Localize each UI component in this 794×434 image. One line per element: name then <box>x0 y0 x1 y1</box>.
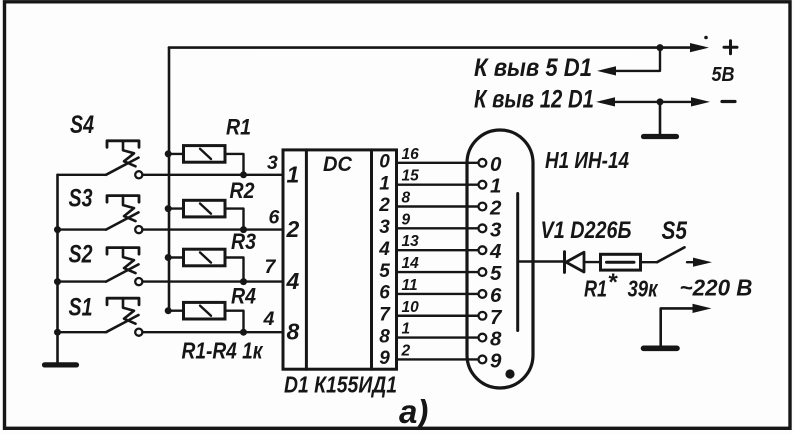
svg-text:1: 1 <box>379 173 390 194</box>
svg-text:8: 8 <box>379 326 390 347</box>
wire decoder output 2 to tube cathode <box>397 205 479 207</box>
diode V1 D226B <box>563 252 566 273</box>
node cathode 8 <box>479 334 487 342</box>
node cathode 6 <box>479 290 487 298</box>
svg-text:4: 4 <box>378 239 390 260</box>
svg-text:2: 2 <box>286 216 300 242</box>
svg-text:39к: 39к <box>628 276 659 302</box>
svg-text:4: 4 <box>489 240 502 263</box>
svg-text:DC: DC <box>323 153 353 176</box>
svg-text:6: 6 <box>379 283 390 304</box>
svg-text:13: 13 <box>402 233 420 250</box>
node cathode 2 <box>479 203 487 211</box>
node junction resistor to input wire <box>240 171 247 178</box>
wire decoder output 9 to tube cathode <box>397 358 479 360</box>
wire R1* to switch S5 <box>641 261 658 263</box>
node arrow to plus supply <box>690 43 709 52</box>
node cathode 0 <box>479 159 487 167</box>
svg-text:8: 8 <box>402 190 411 207</box>
node junction resistor top on +5V bus <box>165 205 172 212</box>
ground (left bottom) <box>45 362 77 367</box>
svg-text:1: 1 <box>287 161 300 187</box>
node cathode 4 <box>479 246 487 254</box>
svg-text:5: 5 <box>490 262 502 285</box>
wire +5V vertical bus <box>168 48 171 312</box>
wire decoder output 3 to tube cathode <box>397 227 479 229</box>
node cathode 3 <box>479 224 487 232</box>
node junction on plus rail <box>657 44 664 51</box>
node junction resistor top on +5V bus <box>165 254 172 261</box>
svg-text:2: 2 <box>378 195 390 216</box>
wire S3 contact to decoder input <box>143 228 284 230</box>
tube H1 IN-14 envelope <box>467 130 533 388</box>
resistor R3 <box>169 256 184 258</box>
svg-text:3: 3 <box>490 218 502 241</box>
svg-text:9: 9 <box>490 349 502 372</box>
wire decoder output 4 to tube cathode <box>397 249 479 251</box>
ground (mains return) <box>644 345 678 351</box>
switch S4 <box>58 174 107 176</box>
svg-text:*: * <box>608 269 619 296</box>
node junction on minus rail <box>657 98 664 105</box>
svg-text:1: 1 <box>490 175 501 198</box>
svg-text:9: 9 <box>402 211 411 228</box>
resistor R1* 39k <box>601 254 641 270</box>
wire decoder output 7 to tube cathode <box>397 315 479 317</box>
svg-text:1: 1 <box>402 321 411 338</box>
svg-text:Н1 ИН-14: Н1 ИН-14 <box>545 147 629 173</box>
wire mains line with arrow <box>687 261 702 263</box>
svg-text:3: 3 <box>379 217 390 238</box>
ground (minus rail chassis) <box>659 102 662 135</box>
svg-text:а): а) <box>399 393 428 430</box>
svg-text:4: 4 <box>286 268 300 294</box>
wire S1 contact to decoder input <box>143 331 284 333</box>
svg-text:R2: R2 <box>230 178 256 203</box>
node junction on ground bus <box>54 278 61 285</box>
wire S4 contact to decoder input <box>143 174 284 176</box>
svg-text:0: 0 <box>490 153 502 176</box>
switch S5 <box>657 247 685 262</box>
svg-text:10: 10 <box>402 299 420 316</box>
node cathode 5 <box>479 268 487 276</box>
wire diode to R1* <box>584 261 601 263</box>
gas indicator dot <box>505 369 514 378</box>
wire S2 contact to decoder input <box>143 280 284 282</box>
node junction resistor to input wire <box>240 278 247 285</box>
svg-text:5В: 5В <box>712 63 735 86</box>
wire minus rail to pin 12 of D1 <box>601 101 703 103</box>
svg-text:R1: R1 <box>226 115 251 140</box>
svg-text:6: 6 <box>490 284 502 307</box>
wire decoder output 0 to tube cathode <box>397 162 479 164</box>
svg-text:11: 11 <box>402 277 418 294</box>
svg-text:14: 14 <box>402 255 420 272</box>
svg-text:0: 0 <box>379 152 390 173</box>
wire left ground bus <box>56 175 59 362</box>
svg-text:R1-R4 1к: R1-R4 1к <box>182 338 264 364</box>
svg-text:8: 8 <box>287 319 300 345</box>
svg-text:15: 15 <box>402 168 420 185</box>
svg-text:7: 7 <box>265 256 277 278</box>
svg-text:7: 7 <box>379 304 391 325</box>
wire mains return <box>661 308 702 345</box>
svg-text:7: 7 <box>490 306 503 329</box>
svg-text:V1 D226Б: V1 D226Б <box>541 217 632 244</box>
node junction on ground bus <box>54 329 61 336</box>
svg-text:9: 9 <box>379 348 390 369</box>
svg-text:5: 5 <box>379 261 390 282</box>
resistor R2 <box>169 207 184 209</box>
node cathode 1 <box>479 181 487 189</box>
node junction resistor top on +5V bus <box>165 307 172 314</box>
node junction on ground bus <box>54 226 61 233</box>
node cathode 9 <box>479 356 487 364</box>
svg-text:К выв 12 D1: К выв 12 D1 <box>474 86 594 114</box>
wire anode to diode <box>518 260 563 262</box>
svg-text:S4: S4 <box>70 111 94 139</box>
svg-text:2: 2 <box>401 342 411 359</box>
svg-text:D1 К155ИД1: D1 К155ИД1 <box>284 372 397 398</box>
decoder D1 K155ID1 body <box>283 150 397 369</box>
wire decoder output 1 to tube cathode <box>397 183 479 185</box>
wire decoder output 6 to tube cathode <box>397 293 479 295</box>
label plus sign <box>724 46 737 49</box>
wire branch to pin 5 of D1 <box>606 48 660 71</box>
node junction resistor to input wire <box>240 329 247 336</box>
svg-text:S5: S5 <box>662 217 688 245</box>
node junction resistor to input wire <box>240 226 247 233</box>
resistor R4 <box>169 310 184 312</box>
svg-text:4: 4 <box>263 308 275 330</box>
svg-text:~220 В: ~220 В <box>680 275 753 301</box>
svg-text:К выв 5 D1: К выв 5 D1 <box>474 54 592 82</box>
svg-text:2: 2 <box>489 197 502 220</box>
wire decoder output 5 to tube cathode <box>397 271 479 273</box>
svg-text:S1: S1 <box>69 293 93 321</box>
wire +5V top rail <box>169 46 703 49</box>
node cathode 7 <box>479 312 487 320</box>
label minus sign <box>722 100 735 103</box>
node junction resistor top on +5V bus <box>165 150 172 157</box>
svg-text:8: 8 <box>490 328 502 351</box>
svg-text:R3: R3 <box>231 229 256 254</box>
wire decoder output 8 to tube cathode <box>397 336 479 338</box>
svg-text:6: 6 <box>269 206 280 228</box>
svg-text:S2: S2 <box>69 241 93 269</box>
tube anode electrode <box>516 194 519 331</box>
svg-text:S3: S3 <box>69 184 93 212</box>
svg-text:16: 16 <box>402 146 420 163</box>
resistor R1 <box>169 153 184 155</box>
speck dot <box>704 36 708 40</box>
svg-text:R1: R1 <box>584 276 607 302</box>
svg-text:3: 3 <box>267 152 278 174</box>
svg-text:R4: R4 <box>231 284 256 309</box>
